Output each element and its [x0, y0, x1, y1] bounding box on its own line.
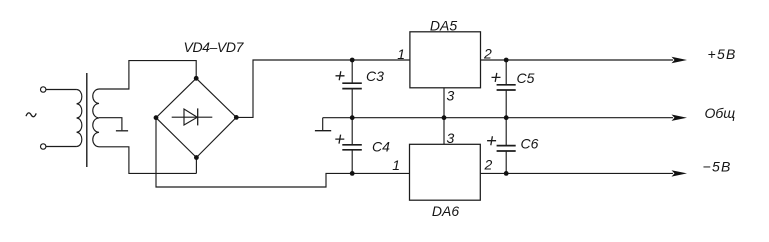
ground stub drop: [322, 118, 324, 131]
svg-text:3: 3: [447, 130, 455, 146]
svg-text:1: 1: [397, 46, 405, 62]
svg-text:1: 1: [392, 157, 400, 173]
ground stub bar: [315, 130, 331, 132]
plus sign C5: [492, 73, 501, 82]
svg-text:+5В: +5В: [708, 46, 737, 62]
arrow -5V: [672, 170, 688, 176]
junction C5-C6 common: [504, 115, 509, 120]
wire secondary center tap: [99, 118, 122, 131]
regulator DA5 box: [410, 32, 481, 88]
capacitor C3 wires: [351, 60, 353, 118]
svg-text:C6: C6: [521, 135, 539, 151]
wire primary bottom: [46, 146, 77, 148]
capacitor C6 plates: [497, 146, 516, 151]
wire common rail: [323, 117, 673, 119]
svg-text:DA5: DA5: [430, 18, 457, 34]
svg-text:C4: C4: [372, 139, 390, 155]
wire bridge left to -5V rail left part: [156, 118, 410, 187]
plus sign C4: [335, 135, 344, 144]
svg-text:VD4–VD7: VD4–VD7: [184, 39, 245, 55]
junction C6 bottom: [504, 171, 509, 176]
wire secondary top to bridge top: [99, 61, 196, 89]
junction C3-C4 common: [350, 115, 355, 120]
terminal top: [41, 87, 46, 92]
transformer core: [86, 73, 88, 167]
diode symbol axis line: [172, 116, 213, 118]
svg-text:3: 3: [447, 88, 455, 104]
junction pin3 common: [442, 115, 447, 120]
capacitor C5 wires: [505, 60, 507, 118]
svg-text:C5: C5: [517, 70, 535, 86]
svg-text:2: 2: [484, 157, 493, 173]
chassis tap bar: [116, 130, 128, 132]
diode triangle: [184, 109, 197, 125]
wire pin3 vertical DA5-DA6: [443, 88, 445, 145]
svg-text:DA6: DA6: [432, 203, 459, 219]
junction C5 top: [504, 58, 509, 63]
AC source tilde: [26, 113, 36, 117]
svg-text:−5В: −5В: [703, 159, 732, 175]
diode bridge VD4-VD7 diamond: [156, 78, 236, 157]
plus sign C6: [487, 136, 496, 145]
junction C3 top: [350, 58, 355, 63]
junction bridge bottom: [194, 155, 199, 160]
wire bridge right to +5V rail left part: [236, 60, 410, 117]
svg-text:C3: C3: [366, 68, 384, 84]
wire secondary bottom to bridge bottom: [99, 147, 196, 174]
svg-text:2: 2: [483, 45, 492, 61]
transformer T1 secondary winding: [93, 89, 99, 147]
wire bridge bottom drop: [195, 158, 197, 174]
diode cathode bar: [197, 108, 199, 125]
junction bridge left: [154, 115, 159, 120]
junction bridge right: [234, 115, 239, 120]
capacitor C3 plates: [342, 83, 362, 88]
arrow common: [672, 115, 688, 121]
wire +5V rail right part with arrow line: [481, 59, 674, 61]
junction bridge top: [194, 76, 199, 81]
wire -5V rail right part: [480, 172, 673, 174]
svg-text:Общ: Общ: [705, 105, 736, 121]
plus sign C3: [336, 71, 345, 80]
transformer T1 primary winding: [77, 90, 82, 147]
capacitor C4 wires: [351, 118, 353, 174]
regulator DA6 box: [410, 144, 481, 200]
capacitor C5 plates: [497, 85, 516, 90]
junction C4 bottom: [350, 171, 355, 176]
capacitor C4 plates: [342, 145, 362, 150]
wire primary top: [46, 89, 77, 91]
capacitor C6 wires: [505, 118, 507, 174]
arrow +5V: [672, 57, 688, 63]
terminal bottom: [41, 144, 46, 149]
